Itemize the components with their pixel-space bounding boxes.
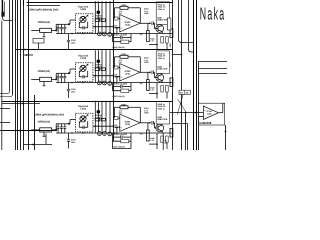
svg-text:CIR02 (μPC4560HA) 2002: CIR02 (μPC4560HA) 2002 (29, 9, 59, 12)
svg-text:CIR03 (μPC4560HA) 2003: CIR03 (μPC4560HA) 2003 (34, 114, 64, 117)
svg-text:C314: C314 (168, 63, 171, 67)
svg-text:NJM2068: NJM2068 (199, 121, 212, 125)
svg-text:10: 10 (164, 142, 166, 145)
svg-text:IC301: IC301 (207, 110, 213, 113)
svg-text:Naka: Naka (200, 4, 226, 24)
svg-text:R407: R407 (168, 43, 171, 47)
svg-text:3V: 3V (186, 92, 189, 95)
svg-text:(1/2): (1/2) (207, 113, 211, 116)
